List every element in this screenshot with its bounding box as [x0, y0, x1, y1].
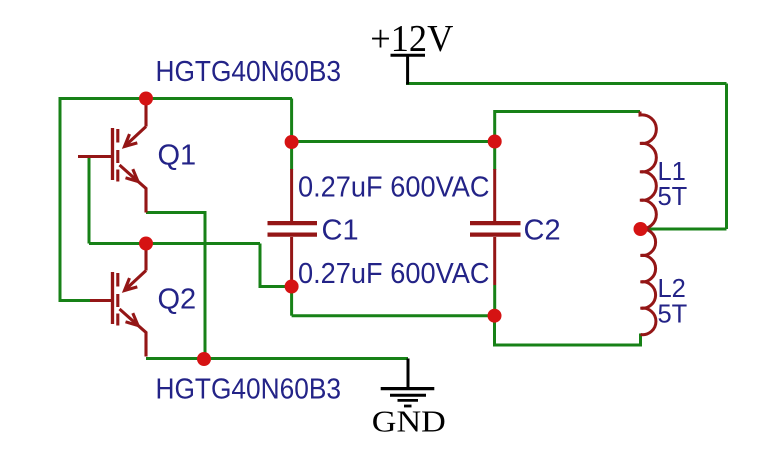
wire L2 return: [495, 316, 641, 345]
transistor Q2: [90, 243, 146, 357]
wire C1 top stub: [290, 142, 293, 170]
wire middle rail jog: [260, 244, 292, 287]
svg-text:0.27uF 600VAC: 0.27uF 600VAC: [298, 258, 490, 290]
wire C2 node riser: [495, 112, 640, 142]
node C1 top: [285, 135, 299, 149]
svg-text:5T: 5T: [658, 183, 688, 211]
node Q2 collector: [139, 237, 153, 251]
wire top rail: [59, 97, 293, 100]
svg-text:0.27uF 600VAC: 0.27uF 600VAC: [298, 171, 490, 203]
wire Q1 emitter run: [146, 213, 205, 359]
wire tank top rail C1-C2: [292, 140, 495, 143]
node C1 bottom: [285, 280, 299, 294]
inductor L2: [641, 229, 656, 335]
node C2 bottom: [488, 309, 502, 323]
svg-text:GND: GND: [372, 405, 446, 439]
svg-text:HGTG40N60B3: HGTG40N60B3: [156, 374, 342, 406]
wire center tap: [641, 228, 727, 231]
capacitor C1: [268, 169, 318, 287]
wire C1 bottom drop: [290, 287, 293, 316]
wire bottom tank rail: [292, 314, 495, 317]
wire C2 bottom stub: [493, 285, 496, 316]
wire ground rail: [146, 357, 408, 360]
svg-text:5T: 5T: [658, 300, 688, 328]
svg-text:Q2: Q2: [158, 284, 197, 316]
wire Q1 gate vertical: [88, 158, 91, 244]
node emitter junction: [197, 352, 211, 366]
svg-text:L1: L1: [658, 158, 686, 186]
wire +12V feed: [406, 82, 727, 85]
inductor L1: [640, 112, 656, 229]
node Q1 collector: [139, 92, 153, 106]
transistor Q1: [78, 99, 146, 213]
wire top rail drop to C1: [290, 99, 293, 143]
node C2 top: [488, 135, 502, 149]
svg-text:+12V: +12V: [370, 18, 454, 60]
power +12V symbol: [391, 55, 426, 84]
svg-text:HGTG40N60B3: HGTG40N60B3: [156, 56, 342, 88]
svg-text:L2: L2: [658, 275, 686, 303]
wire middle rail: [89, 242, 260, 245]
node L center tap: [634, 222, 648, 236]
ground symbol: [381, 359, 435, 407]
wire Q2 gate feed: [59, 299, 91, 302]
capacitor C2: [470, 169, 521, 285]
svg-text:C2: C2: [524, 215, 561, 247]
wire C2 top stub: [493, 142, 496, 171]
svg-text:Q1: Q1: [158, 140, 197, 172]
svg-text:C1: C1: [322, 215, 359, 247]
wire right vertical: [725, 84, 728, 230]
wire left vertical: [59, 97, 62, 301]
